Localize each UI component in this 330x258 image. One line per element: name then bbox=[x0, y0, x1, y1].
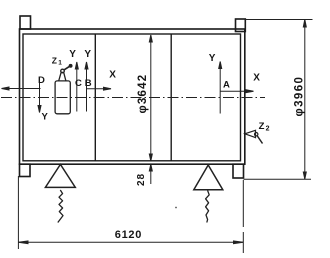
svg-text:2: 2 bbox=[266, 126, 270, 133]
svg-text:28: 28 bbox=[136, 173, 147, 186]
coordinate frame B: Y axis (up) bbox=[85, 62, 88, 112]
dimension phi3960 line bbox=[303, 20, 306, 180]
svg-text:φ3642: φ3642 bbox=[137, 74, 149, 114]
bottom-left head rim step bbox=[20, 164, 31, 176]
svg-text:Y: Y bbox=[42, 112, 49, 123]
bottom-right head rim step bbox=[233, 164, 244, 178]
stray speck bbox=[175, 207, 177, 209]
svg-text:Y: Y bbox=[84, 49, 91, 60]
coordinate frame C: Y axis (up) bbox=[75, 62, 78, 112]
vessel outer shell bbox=[20, 29, 245, 164]
6120 right extension line bbox=[242, 180, 244, 253]
svg-text:6120: 6120 bbox=[115, 229, 142, 241]
saddle support right bbox=[194, 165, 223, 190]
coordinate frame B: X axis (right) bbox=[87, 87, 111, 90]
svg-text:Y: Y bbox=[69, 49, 76, 60]
svg-text:B: B bbox=[85, 78, 92, 89]
dimension 28 line bbox=[149, 164, 152, 184]
svg-text:Y: Y bbox=[209, 53, 216, 64]
dimension 6120 line bbox=[18, 241, 243, 244]
coordinate frame A: X axis (right) bbox=[220, 90, 253, 93]
saddle support left bbox=[45, 164, 75, 187]
6120 left extension line bbox=[17, 176, 19, 249]
coordinate frame D: X axis (left) bbox=[2, 87, 41, 90]
nozzle Z1 lever bbox=[64, 65, 72, 70]
svg-text:X: X bbox=[253, 72, 260, 83]
coordinate frame A: Y axis (up) bbox=[219, 62, 222, 114]
svg-text:D: D bbox=[38, 75, 45, 86]
svg-text:φ3960: φ3960 bbox=[293, 76, 305, 117]
phi3960 top extension line bbox=[246, 19, 313, 21]
spring squiggle right bbox=[206, 191, 210, 223]
svg-text:Z: Z bbox=[259, 121, 265, 132]
svg-text:C: C bbox=[75, 78, 82, 89]
phi3960 bottom extension line bbox=[244, 178, 312, 180]
top-right head rim tab bbox=[236, 19, 246, 32]
svg-text:X: X bbox=[109, 70, 116, 81]
svg-text:A: A bbox=[223, 80, 230, 91]
nozzle Z2 valve bbox=[245, 130, 263, 143]
coordinate frame D: Y axis (down) bbox=[38, 83, 41, 113]
svg-text:1: 1 bbox=[58, 60, 62, 67]
dimension phi3642 line bbox=[149, 35, 152, 161]
spring squiggle left bbox=[58, 190, 63, 223]
shell section divider 2 bbox=[170, 34, 172, 161]
svg-text:Z: Z bbox=[52, 56, 57, 66]
vessel inner shell bbox=[23, 34, 241, 161]
centerline (dash-dot) bbox=[1, 97, 265, 99]
top-left head rim tab bbox=[20, 16, 31, 29]
nozzle Z1 safety valve body bbox=[55, 69, 70, 114]
shell section divider 1 bbox=[94, 34, 96, 161]
